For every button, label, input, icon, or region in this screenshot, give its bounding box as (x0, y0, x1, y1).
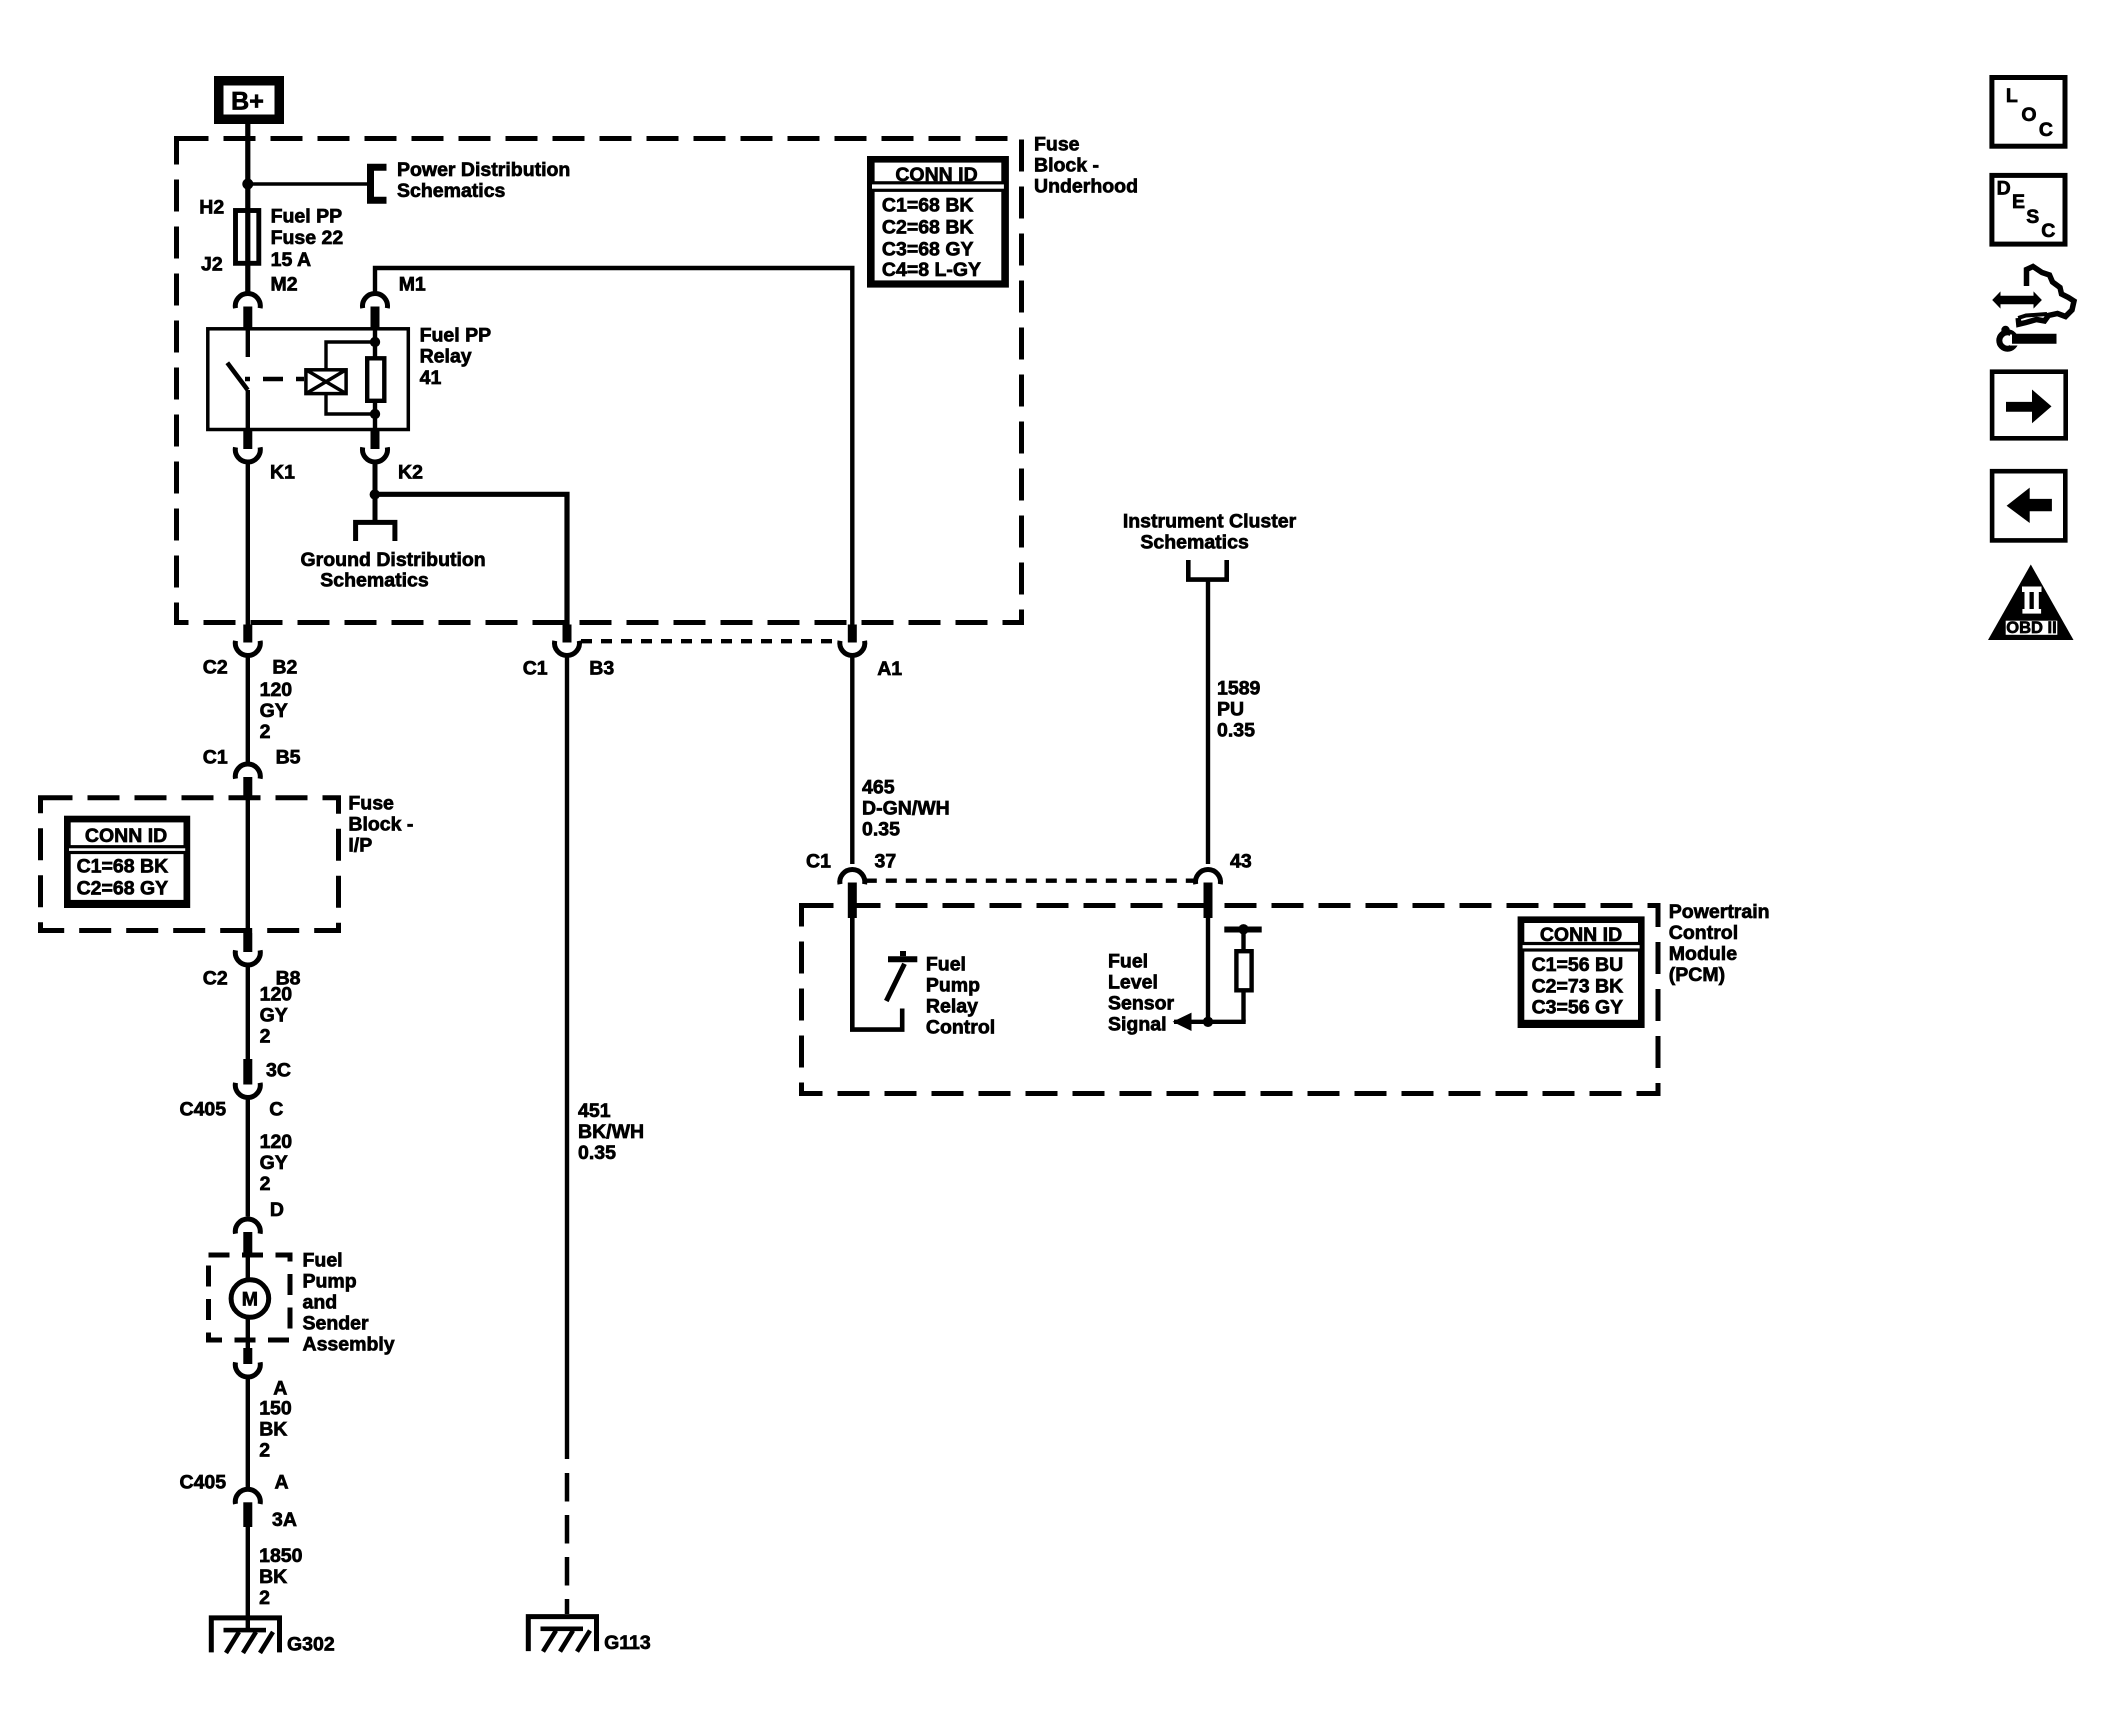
ground G113 (528, 1617, 651, 1655)
svg-text:Fuel PP: Fuel PP (420, 324, 492, 346)
junction dot coil bottom (370, 409, 380, 419)
relay switch blade (227, 363, 247, 390)
svg-text:(PCM): (PCM) (1669, 964, 1725, 986)
svg-text:3C: 3C (266, 1060, 291, 1082)
wire 43 to sensor node (1206, 918, 1210, 1022)
svg-text:Power Distribution: Power Distribution (397, 159, 570, 181)
label Fuse Block - Underhood (1034, 134, 1138, 198)
table CONN ID fuse block underhood (870, 159, 1007, 286)
svg-text:C1=68 BK: C1=68 BK (77, 855, 169, 877)
svg-text:C: C (2039, 119, 2053, 141)
svg-text:465: 465 (862, 777, 895, 799)
svg-text:G113: G113 (604, 1632, 651, 1654)
wire B3 down circuit 451 BK/WH (565, 656, 569, 1460)
svg-text:D: D (270, 1199, 284, 1221)
svg-text:M2: M2 (271, 273, 298, 295)
svg-text:A: A (273, 1378, 287, 1400)
connector A1 (840, 625, 865, 656)
table CONN ID fuse block IP (67, 818, 188, 905)
svg-text:Instrument Cluster: Instrument Cluster (1123, 511, 1297, 533)
icon double arrow with outline and wrench (1992, 267, 2074, 349)
svg-text:S: S (2026, 206, 2039, 228)
svg-text:C4=8 L-GY: C4=8 L-GY (882, 259, 981, 281)
icon forward arrow box (1992, 372, 2066, 439)
svg-text:E: E (2012, 191, 2025, 213)
resistor lead upper (1241, 932, 1245, 951)
svg-text:H2: H2 (199, 197, 224, 219)
icon OBD II triangle (1988, 565, 2074, 641)
connector C2-B2 (235, 625, 260, 656)
svg-text:CONN ID: CONN ID (1540, 924, 1622, 946)
junction dot coil top (370, 337, 380, 347)
svg-text:37: 37 (875, 851, 897, 873)
svg-text:Assembly: Assembly (303, 1334, 395, 1356)
svg-text:Fuse: Fuse (1034, 134, 1080, 156)
relay actuation dashed link (245, 377, 304, 381)
svg-text:C2: C2 (203, 657, 228, 679)
label Instrument Cluster Schematics (1123, 511, 1297, 554)
label 465 D-GN/WH 0.35 (862, 777, 950, 841)
power feed B+ box (214, 76, 284, 124)
svg-text:B5: B5 (276, 747, 301, 769)
svg-text:Relay: Relay (926, 996, 978, 1018)
wire B+ to fuse H2 (245, 124, 250, 292)
label Fuel Pump and Sender Assembly (303, 1250, 395, 1356)
sensor signal horizontal wire (1174, 1020, 1246, 1024)
connector C2-B8 out of IP fuse block (235, 933, 260, 965)
svg-text:43: 43 (1230, 851, 1252, 873)
label 120 GY 2 (260, 679, 293, 743)
svg-text:BK: BK (259, 1566, 287, 1588)
svg-text:Schematics: Schematics (397, 180, 506, 202)
svg-text:C: C (269, 1099, 283, 1121)
connector K2 relay coil output (363, 430, 388, 463)
svg-text:C: C (2041, 220, 2055, 242)
svg-text:3A: 3A (272, 1509, 297, 1531)
label Fuel Pump Relay Control (926, 954, 995, 1039)
icon DESC box (1992, 175, 2065, 244)
svg-text:Sender: Sender (303, 1313, 370, 1335)
svg-text:B2: B2 (272, 657, 297, 679)
label Powertrain Control Module PCM (1669, 901, 1770, 986)
svg-text:PU: PU (1217, 699, 1244, 721)
driver switch contact nub (900, 951, 906, 956)
fuse block underhood dashed box (177, 139, 1022, 623)
svg-text:1589: 1589 (1217, 678, 1261, 700)
svg-text:2: 2 (259, 1587, 270, 1609)
connector C1 pin 37 into PCM (840, 869, 865, 918)
wire A1 to C1-37 circuit 465 (850, 656, 854, 865)
driver switch contact bar (888, 956, 917, 962)
label C2 B2 (203, 657, 298, 679)
svg-text:Sensor: Sensor (1108, 993, 1175, 1015)
svg-text:150: 150 (259, 1398, 292, 1420)
label 451 BK/WH 0.35 (578, 1100, 644, 1164)
svg-text:1850: 1850 (259, 1545, 303, 1567)
svg-text:Powertrain: Powertrain (1669, 901, 1770, 923)
wire 37 to fuel pump relay control driver (852, 918, 902, 1030)
label C1 B3 (523, 658, 615, 680)
svg-text:Underhood: Underhood (1034, 176, 1138, 198)
label C1 B5 (203, 747, 301, 769)
svg-text:C1: C1 (203, 747, 228, 769)
svg-text:Level: Level (1108, 972, 1158, 994)
svg-text:BK: BK (259, 1419, 287, 1441)
svg-text:451: 451 (578, 1100, 611, 1122)
label 120 GY 2 (260, 984, 293, 1048)
svg-text:Fuel PP: Fuel PP (271, 205, 343, 227)
label Power Distribution Schematics (397, 159, 570, 202)
junction dot sensor node (1203, 1017, 1213, 1027)
svg-text:120: 120 (260, 984, 293, 1006)
relay coil box with X (306, 370, 346, 394)
relay coil loop wiring (326, 342, 375, 414)
svg-text:Pump: Pump (926, 975, 980, 997)
svg-text:C2=68 GY: C2=68 GY (77, 878, 169, 900)
svg-text:Block -: Block - (1034, 155, 1099, 177)
table CONN ID PCM (1520, 919, 1642, 1026)
svg-text:B+: B+ (231, 87, 264, 115)
label C405 C (180, 1099, 284, 1121)
resistor lead lower (1241, 990, 1245, 1022)
label Fuel Level Sensor Signal (1108, 951, 1175, 1036)
svg-text:Pump: Pump (303, 1271, 357, 1293)
svg-text:2: 2 (260, 1026, 271, 1048)
svg-text:C3=68 GY: C3=68 GY (882, 239, 974, 261)
wire A to C405 circuit 150 BK (246, 1377, 250, 1487)
svg-text:41: 41 (420, 367, 442, 389)
label 120 GY 2 (260, 1131, 293, 1195)
svg-text:Fuse: Fuse (348, 793, 394, 815)
wire splice to bracket (248, 182, 368, 185)
icon back arrow box (1992, 471, 2065, 540)
connector K1 relay output (235, 430, 260, 463)
svg-text:Fuel: Fuel (1108, 951, 1148, 973)
svg-text:O: O (2021, 104, 2036, 126)
driver switch blade (886, 964, 904, 1001)
connector C405 pin A (235, 1489, 260, 1527)
svg-text:2: 2 (260, 721, 271, 743)
relay coil wire M1 to K2 (373, 328, 377, 430)
connector C1-B3 (555, 625, 580, 656)
svg-text:2: 2 (260, 1173, 271, 1195)
relay switch fixed contact (246, 330, 250, 357)
bracket Power Distribution Schematics (371, 167, 387, 200)
svg-text:GY: GY (260, 1152, 288, 1174)
arrowhead sensor signal (1173, 1013, 1192, 1031)
svg-text:C3=56 GY: C3=56 GY (1532, 997, 1624, 1019)
label Fuse Block - I/P (348, 793, 413, 857)
svg-text:C405: C405 (180, 1099, 227, 1121)
connector pin 43 into PCM (1196, 869, 1221, 918)
svg-text:M1: M1 (399, 273, 426, 295)
svg-text:0.35: 0.35 (578, 1142, 616, 1164)
svg-text:Schematics: Schematics (320, 570, 429, 592)
wire through IP fuse block (246, 797, 250, 933)
fuel pump and sender assembly dashed box (209, 1255, 291, 1340)
svg-text:C1: C1 (806, 851, 831, 873)
dotted connector line 37 to 43 (866, 879, 1195, 883)
label Fuel PP Relay 41 (420, 324, 492, 389)
svg-text:D-GN/WH: D-GN/WH (862, 798, 950, 820)
fuel pump motor M (231, 1280, 269, 1318)
wire B8 to 3C circuit 120 GY (246, 965, 250, 1059)
label Ground Distribution Schematics (301, 549, 486, 592)
bracket Instrument Cluster Schematics (1188, 560, 1226, 580)
connector pump pin A out (235, 1348, 260, 1377)
svg-text:15 A: 15 A (271, 249, 311, 271)
svg-text:J2: J2 (201, 254, 223, 276)
svg-text:Control: Control (926, 1017, 995, 1039)
svg-text:2: 2 (259, 1440, 270, 1462)
wire D to motor (246, 1254, 250, 1278)
svg-text:GY: GY (260, 700, 288, 722)
svg-text:Ground Distribution: Ground Distribution (301, 549, 486, 571)
icon LOC box (1992, 78, 2065, 147)
connector M1 into relay coil (363, 293, 388, 328)
fuel level sense resistor (1236, 951, 1251, 990)
svg-text:0.35: 0.35 (862, 819, 900, 841)
wire instrument cluster to pin 43 circuit 1589 PU (1206, 580, 1210, 864)
dashed wire 451 to G113 (565, 1473, 570, 1614)
fuse block IP dashed box (41, 798, 339, 931)
svg-text:and: and (303, 1292, 338, 1314)
label 1589 PU 0.35 (1217, 678, 1261, 742)
svg-text:C2: C2 (203, 968, 228, 990)
powertrain control module dashed box (802, 906, 1659, 1094)
label Fuel PP Fuse 22 15 A (271, 205, 344, 270)
ground G302 (211, 1618, 335, 1656)
wire M1 feed from relay to A1 corner (375, 268, 852, 625)
svg-text:C405: C405 (180, 1472, 227, 1494)
svg-text:C2=73 BK: C2=73 BK (1532, 975, 1624, 997)
svg-text:A1: A1 (877, 658, 902, 680)
svg-text:L: L (2006, 85, 2018, 107)
wire K1 down to C2-B2 (246, 462, 250, 625)
svg-text:Module: Module (1669, 943, 1737, 965)
svg-text:C1: C1 (523, 658, 548, 680)
internal termination bar (1224, 927, 1261, 933)
label 150 BK 2 (259, 1398, 292, 1462)
svg-text:Relay: Relay (420, 346, 472, 368)
bracket Ground Distribution Schematics (356, 522, 395, 541)
relay switch pivot lead (246, 390, 250, 430)
label C1 37 (806, 851, 896, 873)
svg-text:C2=68 BK: C2=68 BK (882, 217, 974, 239)
svg-text:G302: G302 (287, 1633, 335, 1655)
svg-text:Signal: Signal (1108, 1014, 1167, 1036)
svg-text:120: 120 (260, 679, 293, 701)
svg-text:Schematics: Schematics (1140, 531, 1249, 553)
svg-text:D: D (1997, 177, 2011, 199)
wire motor to A (246, 1319, 250, 1348)
svg-text:Fuse 22: Fuse 22 (271, 227, 344, 249)
svg-text:0.35: 0.35 (1217, 720, 1255, 742)
wire 3A to ground circuit 1850 BK (246, 1527, 250, 1629)
svg-text:CONN ID: CONN ID (85, 825, 167, 847)
label C2 B8 (203, 968, 301, 990)
fuse F22 Fuel PP Fuse 22 15A (236, 211, 259, 264)
svg-text:M: M (242, 1289, 258, 1311)
svg-text:Block -: Block - (348, 814, 413, 836)
wire K2 to B3 corner (373, 462, 378, 495)
svg-text:Fuel: Fuel (303, 1250, 343, 1272)
dotted connector line B3 to A1 (581, 639, 839, 643)
svg-text:120: 120 (260, 1131, 293, 1153)
svg-text:C1=68 BK: C1=68 BK (882, 195, 974, 217)
wire C to D circuit 120 GY (246, 1098, 250, 1217)
relay coil resistor (367, 358, 384, 401)
svg-text:GY: GY (260, 1005, 288, 1027)
svg-text:K1: K1 (270, 461, 295, 483)
svg-text:A: A (275, 1472, 289, 1494)
svg-text:Control: Control (1669, 922, 1738, 944)
connector C405 pin C (235, 1059, 260, 1098)
svg-text:C1=56 BU: C1=56 BU (1532, 954, 1624, 976)
connector D into fuel pump assembly (235, 1219, 260, 1254)
junction dot K2 splice (370, 489, 380, 499)
svg-text:K2: K2 (398, 461, 423, 483)
svg-text:CONN ID: CONN ID (895, 164, 977, 186)
junction dot termination (1238, 924, 1248, 934)
svg-text:OBD II: OBD II (2006, 619, 2056, 637)
connector M2 fuse output to relay (235, 293, 260, 328)
svg-text:I/P: I/P (348, 835, 372, 857)
svg-text:Fuel: Fuel (926, 954, 966, 976)
svg-text:BK/WH: BK/WH (578, 1121, 644, 1143)
relay box Fuel PP Relay 41 (208, 329, 408, 430)
wire B2 to B5 circuit 120 GY (246, 656, 250, 763)
connector C1-B5 into IP fuse block (235, 764, 260, 797)
svg-text:B3: B3 (589, 658, 614, 680)
label C405 A (180, 1472, 289, 1494)
label 1850 BK 2 (259, 1545, 303, 1609)
node splice to power distribution (242, 179, 253, 190)
wire K2 splice to ground distribution bracket (373, 495, 378, 521)
